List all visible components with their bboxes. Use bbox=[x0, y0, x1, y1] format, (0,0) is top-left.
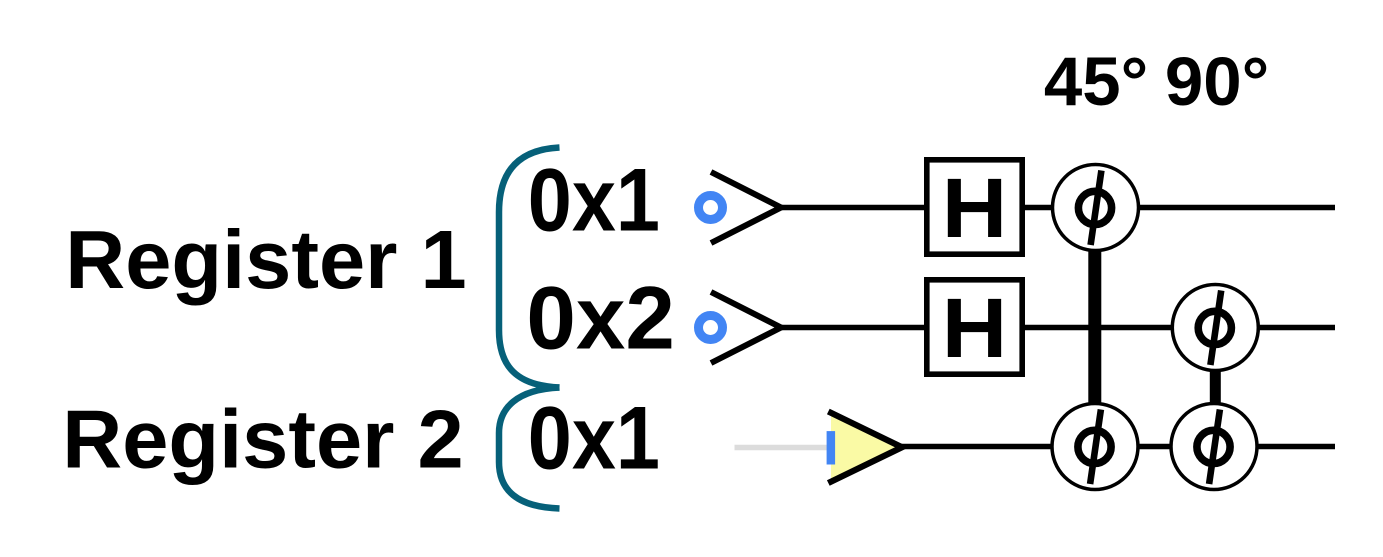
svg-text:0x1: 0x1 bbox=[528, 150, 660, 249]
svg-text:90°: 90° bbox=[1165, 43, 1269, 120]
svg-text:Register 1: Register 1 bbox=[65, 213, 466, 306]
svg-text:0x2: 0x2 bbox=[526, 268, 675, 368]
svg-text:45°: 45° bbox=[1044, 43, 1148, 120]
svg-text:0x1: 0x1 bbox=[528, 388, 660, 487]
svg-text:Register 2: Register 2 bbox=[62, 392, 463, 485]
